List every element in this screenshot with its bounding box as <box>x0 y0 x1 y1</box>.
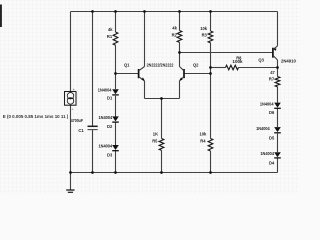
resistor R1 4k <box>107 27 118 45</box>
svg-text:Q3: Q3 <box>258 58 264 63</box>
svg-text:Q1: Q1 <box>124 62 130 67</box>
svg-text:R7: R7 <box>269 77 275 82</box>
wire Q1 emitter down <box>144 81 146 99</box>
wire V+ top supply rail <box>71 11 278 13</box>
junction bottom rail / diode column <box>114 171 117 174</box>
screenshot left-edge artifact bar <box>0 5 2 28</box>
svg-text:1N4004: 1N4004 <box>99 144 113 149</box>
svg-text:D2: D2 <box>107 124 113 129</box>
voltage source VG1 <box>65 88 77 111</box>
ground <box>66 173 74 193</box>
junction top rail / R1 column <box>114 10 117 13</box>
wire rail to R2 top <box>179 12 181 31</box>
diode D2 1N4004 <box>99 115 119 129</box>
wire R3 bottom through R8/base taps to R4 top <box>210 43 212 139</box>
capacitor C1 4700uF <box>71 118 98 133</box>
svg-text:D1: D1 <box>107 96 113 101</box>
svg-text:1N4004: 1N4004 <box>98 88 112 93</box>
svg-text:R2: R2 <box>172 32 178 37</box>
wire R1 bottom to D1 anode (node Q1 base) <box>115 45 117 89</box>
svg-text:C1: C1 <box>78 128 84 133</box>
junction top rail / Q1 collector column <box>143 10 146 13</box>
junction bottom rail / source-ground corner <box>69 171 72 174</box>
svg-text:2N4910: 2N4910 <box>281 58 297 63</box>
svg-text:2N2222/2N2222: 2N2222/2N2222 <box>147 63 175 68</box>
svg-text:1N4004: 1N4004 <box>260 151 274 156</box>
resistor R7 47 <box>269 70 280 87</box>
junction Q2 collector / Q3 base wire <box>178 51 181 54</box>
junction top rail / R2 column <box>178 10 181 13</box>
svg-text:E (0 0.005 0.85 1ms 1ms 10 11: E (0 0.005 0.85 1ms 1ms 10 11 ) <box>3 114 69 119</box>
transistor Q2 2N2222 npn mirrored <box>179 63 199 82</box>
wire D3 cathode to ground rail <box>115 151 117 173</box>
wire Q1 base <box>116 73 139 75</box>
resistor R2 4k <box>172 26 182 43</box>
svg-text:R4: R4 <box>200 139 206 144</box>
wire source VG1 top lead to rail <box>70 12 72 92</box>
svg-text:D6: D6 <box>269 110 275 115</box>
wire rail to Q1 collector <box>144 12 146 67</box>
wire rail to R3 top <box>210 12 212 32</box>
wire D2 cathode to D3 anode <box>115 122 117 145</box>
diode D6 1N4004 <box>260 101 281 115</box>
resistor R8 100k <box>226 55 244 69</box>
wire R8 right lead to Q3 collector node <box>239 67 278 69</box>
wire source VG1 bottom lead to ground rail <box>70 105 72 172</box>
svg-text:R1: R1 <box>107 34 113 39</box>
wire R8 left lead <box>211 67 226 69</box>
svg-text:4700uF: 4700uF <box>71 118 84 123</box>
junction R8 right / Q3 collector column <box>276 66 279 69</box>
diode D3 1N4004 <box>99 144 119 158</box>
svg-text:47: 47 <box>270 70 275 75</box>
junction Q1 base tap on diode column <box>114 72 117 75</box>
wire Q2 base to R3 column <box>184 73 211 75</box>
wire rail to R1 top <box>115 12 117 33</box>
junction bottom rail / C1 column <box>91 171 94 174</box>
svg-text:10k: 10k <box>200 131 208 136</box>
junction top rail / C1 column <box>91 10 94 13</box>
wire R4 bottom to ground rail <box>210 151 212 173</box>
svg-text:R3: R3 <box>202 33 208 38</box>
svg-text:Q2: Q2 <box>193 63 199 68</box>
junction R8 left / R3 column <box>209 66 212 69</box>
wire R5 bottom to ground rail <box>161 150 163 172</box>
wire D1 cathode to D2 anode <box>115 96 117 117</box>
wire D6 cathode to D5 anode <box>277 109 279 127</box>
svg-text:4k: 4k <box>172 26 177 31</box>
wire bottom ground rail <box>71 172 278 174</box>
svg-text:10k: 10k <box>200 26 208 31</box>
svg-text:100k: 100k <box>232 59 243 64</box>
diode D4 1N4004 <box>260 151 280 166</box>
resistor R4 10k <box>200 131 213 151</box>
wire C1 bottom lead to ground rail <box>92 130 94 173</box>
svg-text:+: + <box>71 107 73 111</box>
wire Q2 collector node to Q3 base <box>180 52 273 54</box>
wire D4 cathode to ground rail <box>277 158 279 172</box>
junction Q2 base tap on R3 column <box>209 72 212 75</box>
svg-text:+: + <box>73 88 75 92</box>
wire R7 bottom to D6 anode <box>277 87 279 103</box>
junction bottom rail / R5 column <box>160 171 163 174</box>
wire emitter rail Q1-Q2 <box>145 98 180 100</box>
resistor R5 1K <box>152 131 164 150</box>
svg-text:D4: D4 <box>269 161 275 166</box>
diode D5 1N4004 <box>256 126 281 141</box>
junction emitter rail center tap <box>160 97 163 100</box>
svg-text:1K: 1K <box>153 131 158 136</box>
svg-text:R5: R5 <box>152 138 158 143</box>
wire C1 top lead from rail <box>92 12 94 127</box>
svg-text:D5: D5 <box>269 136 275 141</box>
wire R2 bottom to Q2 collector <box>179 42 181 66</box>
wire rail corner down to Q3 emitter <box>277 12 279 46</box>
junction top rail / R3 column <box>209 10 212 13</box>
resistor R3 10k <box>200 26 213 43</box>
svg-text:D3: D3 <box>107 153 113 158</box>
svg-text:1N4004: 1N4004 <box>256 126 270 131</box>
transistor Q1 2N2222 npn <box>124 62 174 81</box>
wire Q3 collector down to R7 top <box>277 60 279 77</box>
junction bottom rail / R4 column <box>209 171 212 174</box>
svg-text:1N4004: 1N4004 <box>99 115 113 120</box>
diode D1 1N4004 <box>98 88 119 101</box>
wire Q2 emitter down <box>179 81 181 99</box>
wire emitter tap to R5 top <box>161 99 163 139</box>
transistor Q3 2N4910 pnp <box>258 46 296 63</box>
svg-text:1N4004: 1N4004 <box>260 101 274 106</box>
svg-text:4k: 4k <box>108 27 113 32</box>
wire D5 cathode to D4 anode <box>277 134 279 152</box>
